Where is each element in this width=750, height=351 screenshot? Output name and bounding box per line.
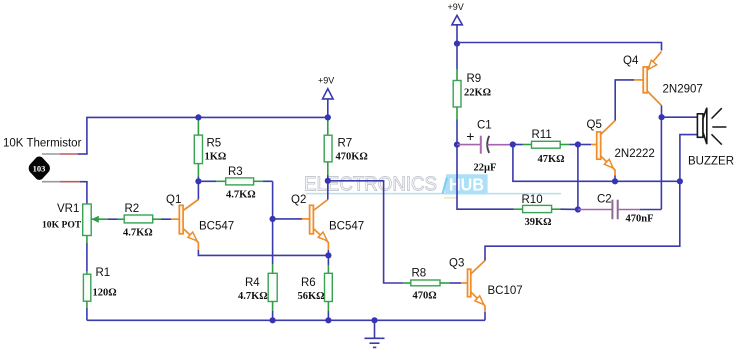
node: R7 bottom junction	[325, 178, 331, 184]
wire: Q1 emitter to R6 node	[198, 250, 328, 255]
svg-text:BC547: BC547	[329, 221, 364, 233]
resistor R5 1K	[194, 117, 226, 181]
resistor R8 470ohm	[403, 268, 468, 302]
wire: Q3 collector loop	[485, 181, 680, 260]
capacitor C2 470nF	[578, 194, 662, 225]
svg-text:+9V: +9V	[318, 76, 334, 86]
buzzer	[688, 108, 734, 168]
svg-text:+: +	[466, 128, 474, 144]
wire: R1 to ground rail	[86, 301, 88, 320]
wire: Q5 base node down to R10/C2	[577, 145, 579, 210]
svg-text:R5: R5	[207, 138, 222, 150]
svg-text:ELECTRONICS: ELECTRONICS	[304, 174, 437, 196]
svg-text:R9: R9	[467, 73, 482, 85]
wire: bottom ground rail	[87, 319, 485, 321]
wire: Q5 collector to Q4 base	[615, 80, 634, 121]
wire: R2 to Q1 base	[153, 218, 180, 220]
svg-text:+9V: +9V	[448, 2, 464, 12]
svg-text:R6: R6	[301, 277, 316, 289]
resistor R9 22K	[453, 44, 491, 145]
svg-text:VR1: VR1	[57, 203, 79, 215]
power +9V left	[318, 76, 334, 121]
wire: to Q2 base	[273, 218, 310, 220]
node: emitter junction	[325, 252, 331, 258]
node: R11 left junction	[510, 141, 516, 147]
svg-text:Q3: Q3	[449, 258, 464, 270]
wire: Q5 emitter to rail	[614, 176, 616, 182]
svg-text:10K Thermistor: 10K Thermistor	[3, 138, 82, 150]
svg-text:C1: C1	[477, 120, 492, 132]
node: buzzer bottom junction	[677, 178, 683, 184]
svg-text:22µF: 22µF	[474, 163, 497, 174]
svg-text:1KΩ: 1KΩ	[205, 152, 227, 163]
svg-text:BC547: BC547	[199, 221, 234, 233]
svg-text:470KΩ: 470KΩ	[336, 152, 368, 163]
node: R6 ground	[325, 317, 331, 323]
ground	[365, 317, 385, 347]
svg-text:22KΩ: 22KΩ	[464, 88, 491, 99]
svg-text:BC107: BC107	[488, 285, 523, 297]
svg-text:HUB: HUB	[449, 175, 484, 195]
wire: Q2 emitter down	[327, 250, 329, 255]
wire: thermistor bottom lead	[42, 182, 88, 204]
transistor Q4 2N2907	[623, 52, 703, 106]
svg-text:R4: R4	[245, 277, 260, 289]
resistor R1 120ohm	[83, 267, 116, 301]
node: Q4 collector junction	[659, 114, 665, 120]
svg-text:470nF: 470nF	[626, 214, 654, 225]
wire: R7 node to R8	[328, 181, 403, 283]
wire: emitter rail	[513, 145, 680, 182]
svg-text:4.7KΩ: 4.7KΩ	[226, 190, 256, 201]
svg-text:R7: R7	[338, 138, 353, 150]
node: Q2 base junction	[270, 216, 276, 222]
resistor R7 470K	[324, 117, 368, 180]
resistor R2 4.7K	[123, 203, 153, 239]
svg-text:2N2907: 2N2907	[663, 84, 703, 96]
svg-text:120Ω: 120Ω	[93, 288, 117, 299]
power +9V right	[448, 2, 464, 47]
wire: Q1 collector up	[197, 181, 199, 199]
capacitor C1 22uF	[457, 120, 513, 174]
resistor R11 47K	[513, 129, 578, 165]
svg-text:2N2222: 2N2222	[615, 148, 655, 160]
transistor Q2 BC547	[291, 194, 364, 250]
resistor R3 4.7K	[198, 166, 272, 201]
svg-text:Q1: Q1	[166, 194, 181, 206]
transistor Q1 BC547	[166, 194, 234, 250]
svg-text:R1: R1	[96, 267, 111, 279]
node: R5/R3/Q1 junction	[195, 178, 201, 184]
svg-text:C2: C2	[597, 194, 612, 206]
svg-text:10K POT: 10K POT	[42, 220, 82, 231]
resistor R10 39K	[514, 194, 578, 228]
wire: Q2 collector up	[327, 181, 329, 200]
transistor Q5 2N2222	[578, 119, 655, 176]
node: Q5 emitter junction	[612, 178, 618, 184]
svg-text:39KΩ: 39KΩ	[525, 217, 552, 228]
svg-text:R8: R8	[412, 268, 427, 280]
wire: VR1 to R1	[86, 236, 88, 275]
wire: left rail down to R10	[457, 145, 514, 210]
svg-text:4.7KΩ: 4.7KΩ	[238, 291, 268, 302]
node: C1 left junction	[454, 142, 460, 148]
transistor Q3 BC107	[449, 258, 523, 313]
wire: top-left +9V rail	[87, 117, 328, 154]
wire: R3 right down to Q2 base and R4	[272, 181, 274, 264]
wire: buzzer bottom lead	[680, 135, 697, 182]
svg-text:R10: R10	[522, 194, 543, 206]
svg-text:Q2: Q2	[291, 194, 306, 206]
wire: buzzer top lead	[662, 116, 698, 118]
svg-text:R11: R11	[532, 129, 552, 141]
node: R4 ground	[270, 317, 276, 323]
svg-text:56KΩ: 56KΩ	[298, 291, 325, 302]
svg-text:R2: R2	[125, 203, 140, 215]
svg-text:470Ω: 470Ω	[413, 291, 437, 302]
svg-text:R3: R3	[228, 166, 243, 178]
node: Q5 base junction	[575, 141, 581, 147]
watermark electronics hub	[304, 174, 561, 198]
potentiometer VR1	[42, 203, 124, 236]
svg-text:BUZZER: BUZZER	[688, 156, 734, 168]
svg-text:47KΩ: 47KΩ	[538, 154, 565, 165]
svg-text:4.7KΩ: 4.7KΩ	[123, 228, 153, 239]
resistor R6 56K	[298, 255, 333, 320]
svg-text:Q5: Q5	[587, 119, 602, 131]
svg-text:Q4: Q4	[623, 55, 639, 67]
wire: Q3 emitter to rail	[484, 312, 486, 320]
node: R10/C2 junction	[575, 206, 581, 212]
node: rail/R5 junction	[195, 114, 201, 120]
thermistor 10K (103)	[27, 154, 52, 182]
wire: Q4 collector down	[661, 106, 663, 118]
wire: thermistor top lead	[42, 153, 88, 155]
resistor R4 4.7K	[238, 264, 277, 320]
svg-text:103: 103	[33, 163, 46, 173]
wire: C2 right up to Q4 collector node	[660, 117, 662, 209]
wire: top rail to Q4 emitter	[457, 43, 662, 51]
